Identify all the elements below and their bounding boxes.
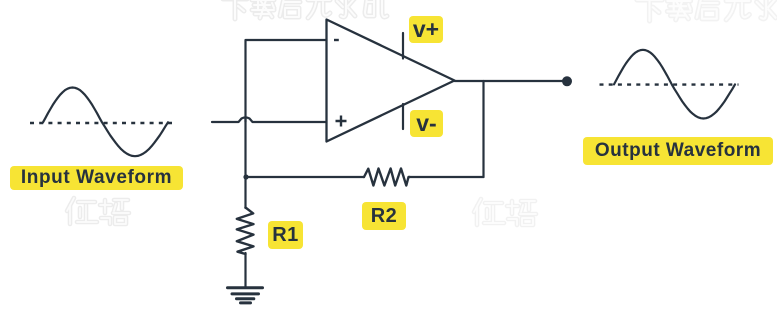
wire: output xyxy=(455,80,563,82)
wire: R1 to ground xyxy=(244,253,246,287)
wire: feedback vertical (down to R1 / junction) xyxy=(244,117,246,208)
power pin V- xyxy=(402,104,404,129)
power pin V+ xyxy=(402,33,404,59)
input signal baseline (dashed) xyxy=(30,122,173,124)
wire: inverting input (top) xyxy=(246,40,327,122)
watermark top-left (faint outline CJK text, cut off at top) xyxy=(223,0,387,19)
label Input Waveform xyxy=(10,166,183,190)
ground xyxy=(228,288,263,303)
watermark top-right (very faint outline CJK text, cut off at top) xyxy=(637,0,777,21)
output sine wave xyxy=(614,50,735,119)
input sine wave xyxy=(43,88,168,157)
label Output Waveform xyxy=(583,137,773,165)
junction node (feedback / R1 / R2) xyxy=(243,174,248,179)
label V+ xyxy=(409,16,443,43)
watermark right (fainter outline logo text) xyxy=(474,199,536,225)
label R2 xyxy=(362,202,406,230)
op-amp U1 xyxy=(327,20,455,142)
label R1 xyxy=(268,221,303,249)
op-amp inverting input marker (-) xyxy=(334,39,339,41)
wire: input lead with hop over feedback line xyxy=(212,117,327,122)
op-amp non-inverting input marker (+) xyxy=(336,116,347,127)
output signal baseline (dashed) xyxy=(600,83,739,85)
wire: output to feedback (right vertical) xyxy=(482,81,484,177)
output node dot xyxy=(562,76,572,86)
label V- xyxy=(410,110,443,137)
wire: feedback bottom xyxy=(246,176,484,178)
resistor R1 xyxy=(237,208,254,255)
resistor R2 xyxy=(364,169,410,186)
watermark left (faint outline logo text) xyxy=(67,198,129,224)
